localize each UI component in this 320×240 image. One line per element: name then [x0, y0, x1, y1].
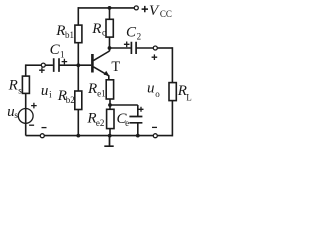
junction Re2 / bottom rail	[108, 134, 112, 138]
label +Vcc	[142, 3, 172, 19]
svg-text:b1: b1	[65, 30, 74, 40]
svg-text:u: u	[147, 80, 155, 96]
wire Ce top lead	[137, 105, 139, 117]
svg-text:CC: CC	[160, 9, 172, 19]
wire Ce tap horizontal	[110, 104, 138, 106]
wire top rail	[78, 7, 134, 9]
svg-text:u: u	[41, 83, 49, 99]
wire base row	[59, 64, 91, 66]
wire Rb2 bottom	[77, 110, 79, 136]
junction emitter / Ce tap	[108, 103, 112, 107]
transistor T emitter arrow	[104, 71, 110, 76]
svg-text:2: 2	[137, 32, 142, 42]
wire C2 left	[110, 47, 131, 49]
svg-text:b2: b2	[66, 95, 75, 105]
wire input top to C1	[45, 64, 53, 66]
svg-text:e2: e2	[96, 118, 105, 128]
junction collector / C2	[108, 46, 112, 50]
svg-text:C: C	[126, 24, 137, 40]
svg-text:s: s	[14, 110, 18, 120]
svg-text:V: V	[149, 3, 160, 19]
svg-text:R: R	[87, 81, 97, 97]
svg-text:e: e	[125, 118, 129, 128]
wire output top to corner	[157, 47, 172, 49]
wire Rb2 top	[77, 65, 79, 91]
wire Ce bottom lead	[137, 123, 139, 136]
svg-text:1: 1	[60, 50, 65, 60]
wire bottom rail	[26, 135, 173, 137]
capacitor C1 plates	[54, 58, 59, 72]
wire Rs top corner	[25, 64, 27, 76]
wire Rb1 bottom	[77, 43, 79, 66]
wire C2 right	[136, 47, 153, 49]
plus us	[31, 103, 37, 109]
svg-text:T: T	[111, 59, 120, 75]
transistor T collector diagonal	[93, 51, 109, 61]
wire RL top	[171, 47, 173, 82]
node output top terminal	[153, 46, 157, 50]
svg-text:C: C	[50, 42, 61, 58]
wire us branch	[25, 93, 27, 135]
node Vcc terminal	[134, 6, 138, 10]
wire collector lead	[109, 37, 111, 51]
svg-text:o: o	[155, 89, 160, 99]
plus input top	[39, 67, 45, 73]
wire input row left	[26, 64, 42, 66]
svg-text:c: c	[102, 28, 106, 38]
wire Rb1 top	[77, 7, 79, 25]
svg-text:L: L	[186, 93, 192, 103]
plus C1	[62, 59, 68, 65]
junction Ce / bottom rail	[136, 134, 140, 138]
svg-text:e1: e1	[97, 88, 106, 98]
node input top terminal	[41, 63, 45, 67]
plus C2	[124, 42, 130, 48]
wire emitter lead	[108, 75, 110, 80]
junction Rb2 / bottom rail	[76, 134, 80, 138]
wire Re2 bottom	[109, 129, 111, 136]
svg-text:s: s	[18, 86, 22, 96]
resistor Re2	[107, 109, 114, 128]
svg-text:R: R	[91, 21, 101, 37]
capacitor C2 plates	[131, 42, 136, 54]
svg-text:R: R	[8, 78, 18, 94]
source us	[18, 109, 33, 124]
resistor RL	[169, 83, 176, 101]
resistor Rb2	[75, 91, 82, 110]
junction top rail / Rc	[108, 6, 112, 10]
junction base / Rb1 / Rb2	[76, 63, 80, 67]
wire Rc top	[109, 7, 111, 19]
resistor Rc	[106, 19, 113, 37]
transistor T base bar	[91, 54, 94, 73]
svg-text:R: R	[55, 23, 65, 39]
svg-text:i: i	[49, 90, 52, 100]
minus output	[152, 126, 157, 128]
resistor Re1	[106, 80, 113, 99]
resistor Rs	[22, 76, 29, 93]
transistor T emitter diagonal	[93, 67, 108, 76]
wire Re1 to Re2	[109, 99, 111, 109]
plus Ce	[139, 107, 144, 112]
plus output	[152, 54, 158, 60]
node input bottom terminal	[40, 134, 44, 138]
ground	[104, 136, 113, 147]
resistor Rb1	[75, 25, 82, 43]
minus us	[29, 124, 34, 126]
capacitor Ce plates	[129, 117, 142, 123]
minus input bottom	[42, 127, 47, 129]
wire RL bottom	[171, 101, 173, 137]
node output bottom terminal	[153, 134, 157, 138]
